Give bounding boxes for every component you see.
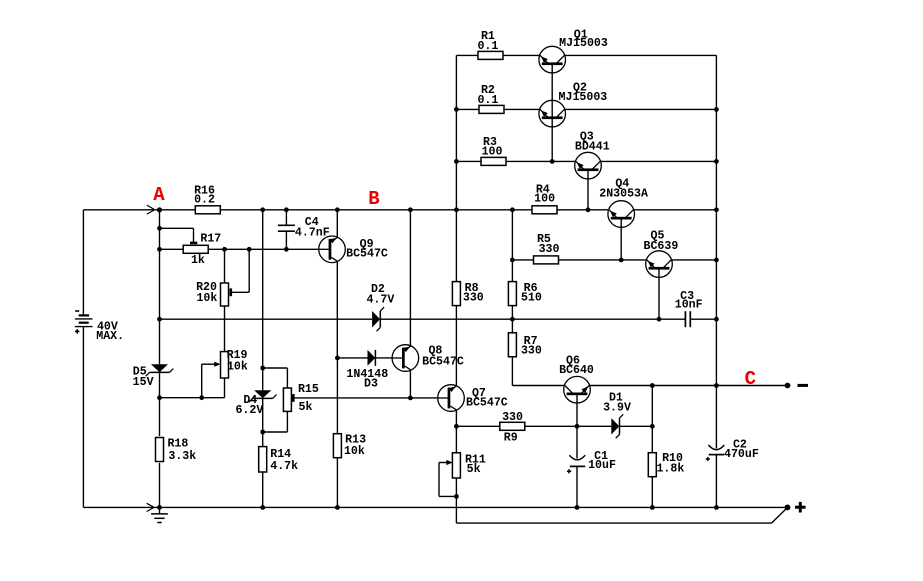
- junction rail-Q2: [714, 107, 719, 112]
- transistor Q8: [392, 345, 419, 372]
- junction Q6 out: [650, 383, 655, 388]
- trimpot R15: [283, 388, 291, 411]
- wire zener rail right: [380, 318, 685, 320]
- transistor Q6: [564, 376, 591, 403]
- svg-text:BC547C: BC547C: [422, 355, 464, 368]
- svg-text:10k: 10k: [196, 292, 217, 305]
- junction D4-R15 bottom: [260, 430, 265, 435]
- resistor R3: [481, 157, 506, 165]
- svg-text:470uF: 470uF: [724, 448, 759, 461]
- wire ground rail: [83, 506, 787, 508]
- resistor R1: [478, 51, 503, 59]
- wire R8 to Q7 collector: [455, 306, 457, 386]
- R11 label: [465, 453, 486, 476]
- svg-text:3.9V: 3.9V: [603, 401, 631, 414]
- svg-text:BC640: BC640: [559, 364, 594, 377]
- svg-text:0.2: 0.2: [194, 194, 215, 207]
- svg-text:10uF: 10uF: [588, 459, 616, 472]
- resistor R18: [156, 438, 164, 462]
- wire R11 bottom: [455, 478, 457, 523]
- wire R1R2R3 left vertical: [455, 55, 457, 281]
- resistor R17: [183, 245, 208, 253]
- svg-text:5k: 5k: [467, 463, 481, 476]
- svg-text:10k: 10k: [227, 360, 248, 373]
- wire C1 leads: [576, 426, 578, 507]
- junction R11 wiper: [454, 494, 459, 499]
- R19 wiper arrow: [214, 362, 220, 367]
- wire Q6 to output C: [590, 385, 788, 387]
- R17 label: [191, 232, 221, 267]
- junction A-wiper: [157, 226, 162, 231]
- resistor R9: [500, 422, 525, 430]
- R15 label: [298, 383, 319, 414]
- battery label: [96, 320, 124, 343]
- minus sign: [798, 384, 809, 387]
- zener D5: [146, 364, 174, 376]
- svg-text:100: 100: [534, 193, 555, 206]
- wire R17 row: [160, 248, 320, 250]
- svg-text:B: B: [368, 188, 379, 210]
- ground: [151, 507, 168, 522]
- svg-text:3.3k: 3.3k: [168, 450, 196, 463]
- wire C2 leads: [715, 386, 717, 508]
- Q6 label: [559, 354, 594, 377]
- svg-text:R15: R15: [298, 383, 319, 396]
- wire R17 wiper branch: [160, 228, 194, 242]
- junction gnd-R10: [650, 505, 655, 510]
- svg-text:BD441: BD441: [575, 141, 610, 154]
- transistor Q2: [539, 100, 566, 127]
- C2 label: [724, 439, 759, 461]
- Q3 label: [575, 131, 610, 154]
- R4 label: [534, 183, 555, 205]
- svg-text:R18: R18: [167, 437, 188, 450]
- junction gnd-R13: [335, 505, 340, 510]
- output terminal minus: [785, 383, 791, 389]
- wire Q5 base: [658, 268, 660, 319]
- capacitor C4: [278, 225, 295, 231]
- svg-text:MAX.: MAX.: [96, 330, 124, 343]
- junction rail-Q8: [408, 207, 413, 212]
- R19 wiper wire: [202, 363, 215, 365]
- svg-text:MJ15003: MJ15003: [559, 37, 608, 50]
- svg-text:MJ15003: MJ15003: [559, 91, 608, 104]
- wire Q9 collector: [336, 210, 338, 237]
- D1 label: [603, 391, 631, 414]
- svg-text:R9: R9: [504, 432, 518, 445]
- R10 label: [656, 452, 684, 475]
- node A: [157, 207, 162, 212]
- R13 label: [344, 434, 366, 459]
- junction Q5 base: [657, 317, 662, 322]
- D2 label: [366, 283, 394, 306]
- svg-text:A: A: [153, 184, 165, 206]
- R14 label: [270, 448, 298, 473]
- wire R4 to Q4: [556, 209, 608, 211]
- junction rail-Q3base: [586, 207, 591, 212]
- wire zener rail left: [160, 318, 373, 320]
- R20 wiper: [230, 288, 233, 296]
- Q5 label: [644, 230, 679, 254]
- wire Q8 emitter: [409, 370, 411, 398]
- svg-text:D3: D3: [364, 378, 378, 391]
- R17 wiper: [190, 242, 197, 245]
- junction rail-R6: [510, 207, 515, 212]
- junction out-C2: [714, 383, 719, 388]
- R8 label: [463, 282, 484, 304]
- wire R20-R19 column: [224, 249, 226, 397]
- D4 label: [235, 394, 263, 417]
- R3 label: [482, 136, 503, 159]
- Q7 label: [466, 387, 508, 410]
- wire R6 column top: [511, 210, 513, 282]
- wire Q7 emitter to R11: [455, 411, 457, 453]
- resistor R16: [195, 206, 220, 214]
- trimpot R19: [221, 352, 229, 378]
- wire C3 to rail: [690, 318, 716, 320]
- wire R10 leads: [651, 386, 653, 508]
- svg-text:330: 330: [539, 243, 560, 256]
- wire R11 wiper link: [439, 463, 456, 497]
- svg-text:330: 330: [502, 411, 523, 424]
- wire R15 leads: [263, 368, 288, 432]
- trimpot R11: [452, 453, 460, 478]
- wire R15 wiper to Q7 base: [294, 397, 438, 399]
- junction rail-C4: [284, 207, 289, 212]
- battery 40V: [75, 311, 93, 334]
- svg-text:10k: 10k: [344, 445, 365, 458]
- svg-text:10nF: 10nF: [675, 299, 703, 312]
- junction R17-R20: [222, 247, 227, 252]
- wire left supply vertical: [82, 210, 84, 508]
- svg-text:100: 100: [482, 146, 503, 159]
- R2 label: [477, 84, 498, 107]
- junction gnd-C1: [575, 505, 580, 510]
- svg-text:15V: 15V: [133, 376, 154, 389]
- junction rail-Q9: [335, 207, 340, 212]
- svg-text:1.8k: 1.8k: [656, 462, 684, 475]
- svg-text:4.7nF: 4.7nF: [295, 226, 330, 239]
- wire node A vertical: [159, 210, 161, 508]
- R15 wiper: [292, 394, 295, 402]
- resistor R6: [508, 282, 516, 306]
- svg-text:BC547C: BC547C: [346, 247, 388, 260]
- capacitor C1: [567, 455, 585, 473]
- R1 label: [477, 30, 498, 53]
- resistor R4: [532, 206, 557, 214]
- capacitor C3: [685, 311, 690, 327]
- wire R1 row: [456, 54, 716, 56]
- plus sign: [795, 502, 806, 513]
- svg-text:BC547C: BC547C: [466, 396, 508, 409]
- svg-text:330: 330: [521, 344, 542, 357]
- wire main rail A-B: [83, 209, 533, 211]
- junction rail-Q4: [714, 207, 719, 212]
- svg-text:510: 510: [521, 292, 542, 305]
- wire R9 row: [456, 425, 652, 427]
- junction gnd-R14: [260, 505, 265, 510]
- junction R9-Q6: [575, 424, 580, 429]
- wire D4 column: [262, 210, 264, 508]
- junction R6-R7: [510, 317, 515, 322]
- capacitor C2: [706, 445, 725, 461]
- R7 label: [521, 335, 542, 358]
- transistor Q3: [575, 152, 602, 179]
- C4 label: [295, 216, 330, 240]
- ground arrow: [147, 503, 154, 511]
- input arrow: [147, 205, 154, 214]
- junction D5j: [199, 395, 204, 400]
- transistor Q9: [319, 236, 346, 263]
- R11 wiper arrow: [446, 460, 452, 465]
- zener D2: [372, 307, 384, 331]
- trimpot R20: [221, 283, 229, 306]
- junction rail-Q5: [714, 258, 719, 263]
- R19 label: [227, 349, 248, 373]
- junction Q4 base: [619, 258, 624, 263]
- zener D1: [611, 414, 623, 438]
- svg-text:330: 330: [463, 292, 484, 305]
- junction R3 left: [454, 159, 459, 164]
- junction gnd-R18: [157, 505, 162, 510]
- transistor Q4: [608, 201, 635, 228]
- D5 label: [133, 366, 154, 390]
- wire right rail: [715, 55, 717, 385]
- wire C4 leads: [285, 210, 287, 250]
- junction Q7-R9: [454, 424, 459, 429]
- wire bottom output rail: [456, 509, 786, 523]
- wire Q4 to right rail: [634, 209, 716, 211]
- transistor Q1: [539, 46, 566, 73]
- junction R6-R5: [510, 258, 515, 263]
- svg-text:C: C: [745, 368, 756, 390]
- svg-text:R17: R17: [200, 232, 221, 245]
- wire D5-R19 junction vertical: [201, 364, 203, 398]
- wire R6-R7 link: [511, 306, 513, 333]
- D3 label: [346, 368, 388, 391]
- wire Q6 base: [576, 394, 578, 426]
- junction A-R17: [157, 247, 162, 252]
- C1 label: [588, 450, 616, 472]
- wire R3 row: [456, 160, 716, 162]
- junction R2 left: [454, 107, 459, 112]
- junction D4-R15 top: [260, 366, 265, 371]
- svg-text:0.1: 0.1: [477, 94, 498, 107]
- junction D1-R10: [650, 424, 655, 429]
- Q1 label: [559, 29, 608, 51]
- junction rail-R8: [454, 207, 459, 212]
- svg-text:1k: 1k: [191, 254, 205, 267]
- svg-text:BC639: BC639: [644, 240, 679, 253]
- resistor R5: [534, 256, 559, 264]
- resistor R2: [479, 105, 504, 113]
- junction D3: [335, 356, 340, 361]
- svg-text:5k: 5k: [299, 401, 313, 414]
- Q4 label: [599, 177, 648, 200]
- resistor R14: [259, 447, 267, 472]
- resistor R8: [452, 282, 460, 306]
- output terminal plus: [785, 505, 791, 511]
- junction gnd-C2: [714, 505, 719, 510]
- junction R20 wiper: [247, 247, 252, 252]
- wire Q1 Q2 base chain: [551, 64, 553, 162]
- junction D5-R19: [157, 395, 162, 400]
- wire D3 row: [337, 357, 392, 359]
- Q2 label: [559, 82, 608, 105]
- Q8 label: [422, 345, 464, 369]
- wire Q8 collector: [409, 210, 411, 346]
- junction rail-C3: [714, 317, 719, 322]
- svg-text:6.2V: 6.2V: [235, 404, 263, 417]
- wire R5 row: [512, 259, 716, 261]
- R16 label: [194, 184, 215, 206]
- R5 label: [537, 233, 560, 256]
- wire R20 wiper link: [232, 249, 249, 292]
- wire Q4 base: [620, 218, 622, 260]
- R18 label: [167, 437, 196, 463]
- junction rail-Q3: [714, 159, 719, 164]
- svg-text:4.7k: 4.7k: [270, 460, 298, 473]
- zener D4: [249, 390, 277, 402]
- wire Q9 emitter: [336, 262, 338, 358]
- Q9 label: [346, 238, 388, 261]
- junction rail-D4: [260, 207, 265, 212]
- wire R2 row: [456, 108, 716, 110]
- wire D5 to R19: [160, 397, 225, 399]
- resistor R13: [333, 434, 341, 458]
- svg-text:0.1: 0.1: [477, 40, 498, 53]
- diode D3: [368, 350, 376, 366]
- junction Q2 base: [550, 159, 555, 164]
- junction A-zener rail: [157, 317, 162, 322]
- transistor Q5: [646, 251, 673, 278]
- R9 label: [502, 411, 523, 445]
- wire R13 leads: [336, 358, 338, 508]
- svg-text:2N3053A: 2N3053A: [599, 187, 648, 200]
- wire Q3 base: [587, 170, 589, 210]
- R20 label: [196, 281, 217, 305]
- svg-text:4.7V: 4.7V: [366, 294, 394, 307]
- resistor R10: [648, 453, 656, 477]
- R6 label: [521, 282, 542, 304]
- C3 label: [675, 290, 703, 312]
- resistor R7: [508, 333, 516, 357]
- junction Q8-Q7 base: [408, 396, 413, 401]
- junction C4: [284, 247, 289, 252]
- transistor Q7: [438, 385, 465, 412]
- wire R7 to Q6: [512, 357, 564, 385]
